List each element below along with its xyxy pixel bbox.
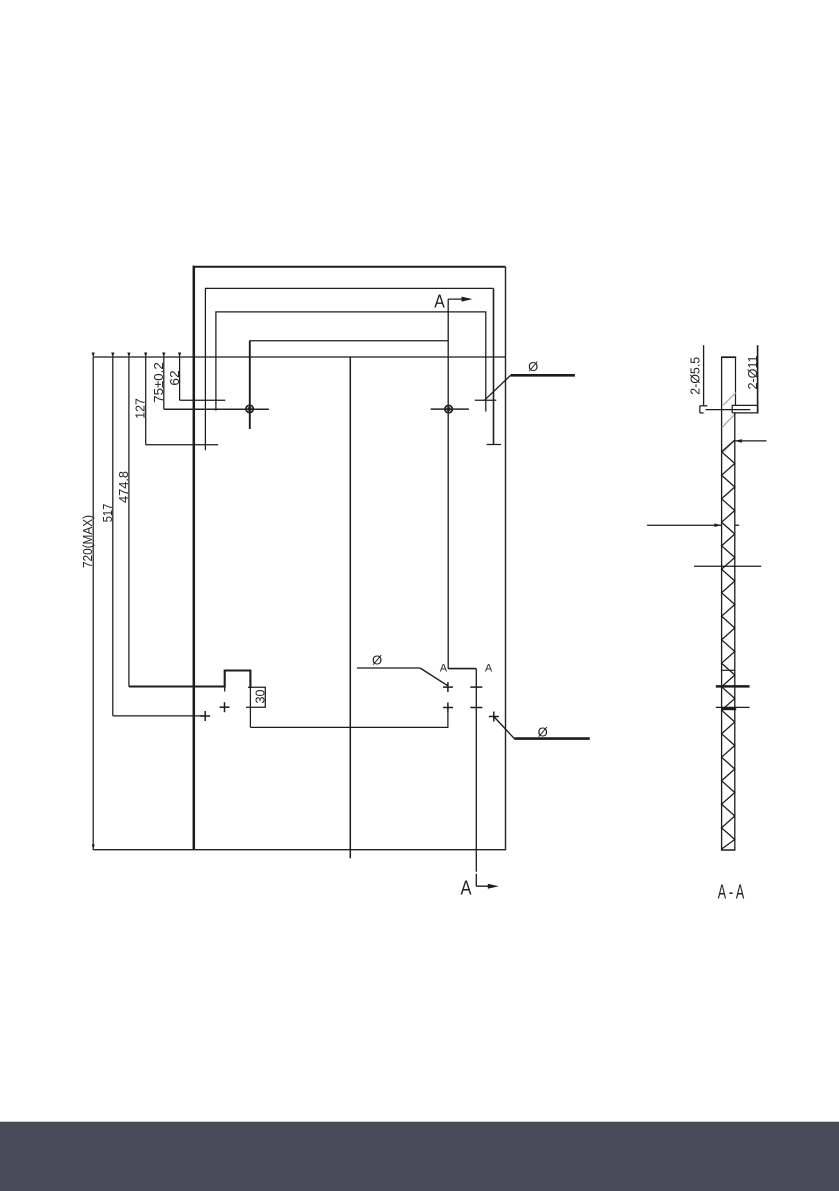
hole right [431,405,469,412]
zigzag section hatch [722,440,735,849]
panel outline left edge [193,266,196,850]
strip bottom [721,849,736,851]
right tick 62 level [475,399,497,401]
thin crossing 707 [716,706,750,708]
leader diameter top right [484,359,575,400]
thick segment 709 [722,708,736,710]
section cut vertical lower [475,669,477,872]
extension 517 [113,715,206,717]
cross mark 224,707 [220,702,230,712]
bracket leg of section [732,405,758,413]
divider 670 [722,669,735,671]
svg-text:A: A [461,878,473,900]
dim line 474.8 [128,357,130,687]
dim line 75 [163,357,165,409]
inner rect4 top [250,341,448,429]
ext line 2-Ø5.5 [703,345,705,406]
panel outline right edge [505,267,507,850]
svg-text:474.8: 474.8 [116,471,131,503]
tick marks on top extension [92,353,182,850]
section cut vertical A top [447,299,449,668]
dim line 517 [112,357,114,716]
svg-text:62: 62 [167,370,182,386]
center line [349,357,351,858]
extension 127 [146,444,219,446]
inner rect3 top [216,312,486,412]
svg-text:A: A [440,662,448,674]
short vertical to 727 [447,713,449,728]
svg-text:75±0.2: 75±0.2 [151,362,166,403]
inner line of leg [706,409,751,411]
dim line 720(MAX) [92,357,94,850]
ext line 2-Ø11 [757,345,759,413]
svg-text:127: 127 [133,398,148,419]
extension 75 through left hole [164,408,269,410]
thick crossing 686 [716,685,750,688]
hole left [246,341,253,429]
panel outline top edge [193,266,506,268]
top extension line [93,356,505,358]
bracket hook outline [129,671,251,689]
leader left 525 [647,523,739,527]
leader diameter lower left [357,653,448,686]
bracket tick [224,683,226,692]
extension 62 [180,399,226,401]
strip right edge [734,413,736,851]
extension 30 to right [249,687,251,727]
section arrow A top [448,298,468,300]
gray hatch in bar [722,393,736,453]
leader diameter lower right [489,712,590,740]
section arrow A bottom [476,885,494,887]
leader right 440 [735,439,767,443]
panel outline bottom edge with 720 extension [93,849,506,851]
svg-text:Ø: Ø [528,359,538,374]
hook step right [448,668,476,670]
svg-text:2-Ø5.5: 2-Ø5.5 [689,357,703,395]
svg-text:Ø: Ø [372,653,382,668]
inner rect2 top [205,288,493,450]
svg-text:Ø: Ø [538,725,548,740]
dim line 62 [179,357,181,400]
dim line 127 [145,357,147,445]
right tick 127 level [487,444,501,446]
svg-text:A - A: A - A [718,881,745,903]
leader crossing 566 [694,565,761,567]
crosses on cut line [443,682,482,712]
svg-text:720(MAX): 720(MAX) [80,515,95,568]
svg-text:A: A [485,662,493,674]
footer band [0,1122,839,1191]
dim 30 [246,687,267,707]
svg-text:2-Ø11: 2-Ø11 [746,355,760,389]
top bar of section [721,357,736,850]
svg-text:30: 30 [252,690,267,704]
cross mark 205,716 [200,711,210,721]
svg-text:517: 517 [100,504,115,523]
svg-text:A: A [434,292,445,312]
